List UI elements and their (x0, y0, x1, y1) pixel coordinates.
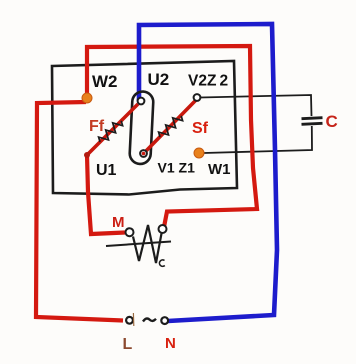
thermal protector M: hook (159, 260, 164, 266)
capacitor branch wire bottom (C to W1) (204, 126, 312, 153)
svg-text:Ff: Ff (89, 118, 105, 135)
terminal V2Z2 (circle) (194, 94, 201, 101)
svg-text:Sf: Sf (192, 120, 209, 137)
wire (red) U1 down to thermal heater (87, 155, 125, 234)
winding Sf hash marks (159, 116, 183, 137)
svg-text:C: C (326, 112, 338, 131)
terminal L (circle) (126, 317, 133, 324)
winding Ff (red, U1 to U2) (87, 104, 138, 155)
thermal protector M: bimetal line (106, 242, 171, 247)
winding Sf (red, V1 to V2Z2) (146, 100, 197, 152)
svg-text:W1: W1 (208, 161, 231, 178)
svg-text:W2: W2 (92, 72, 118, 91)
terminal box (52, 61, 237, 195)
wire (red) W2 left, down left side, to L terminal (36, 102, 123, 321)
wire (red) W2 up, top run, right side down to thermal contact (87, 46, 257, 227)
terminal N (circle) (161, 317, 168, 324)
svg-text:L: L (123, 336, 133, 353)
svg-text:U2: U2 (148, 70, 170, 89)
svg-text:V2Z 2: V2Z 2 (188, 73, 228, 90)
terminal W1 (orange dot) (194, 148, 204, 158)
terminal W2 (orange dot) (82, 93, 92, 103)
svg-text:N: N (165, 335, 176, 352)
terminal L tick (132, 313, 134, 326)
terminal U2 (circle) (138, 98, 145, 105)
svg-text:U1: U1 (96, 162, 117, 179)
link bar (stadium) U2-V1 (129, 91, 154, 164)
thermal protector M: right contact circle (159, 225, 167, 233)
wire (blue) U2 up, top run, right side down, bottom to N terminal (139, 24, 277, 321)
terminal V1 (circle with red center) (140, 150, 147, 157)
thermal protector M: left contact circle (126, 228, 134, 236)
svg-text:M: M (112, 214, 125, 231)
terminal U1 (red dot) (84, 152, 90, 158)
winding Ff hash marks (99, 121, 123, 142)
capacitor branch wire top (V2Z2 to C) (200, 95, 312, 116)
svg-text:V1 Z1: V1 Z1 (158, 160, 196, 176)
capacitor C plates (302, 118, 323, 125)
ac tilde (143, 318, 156, 321)
thermal protector M: heater zigzag (133, 225, 162, 263)
